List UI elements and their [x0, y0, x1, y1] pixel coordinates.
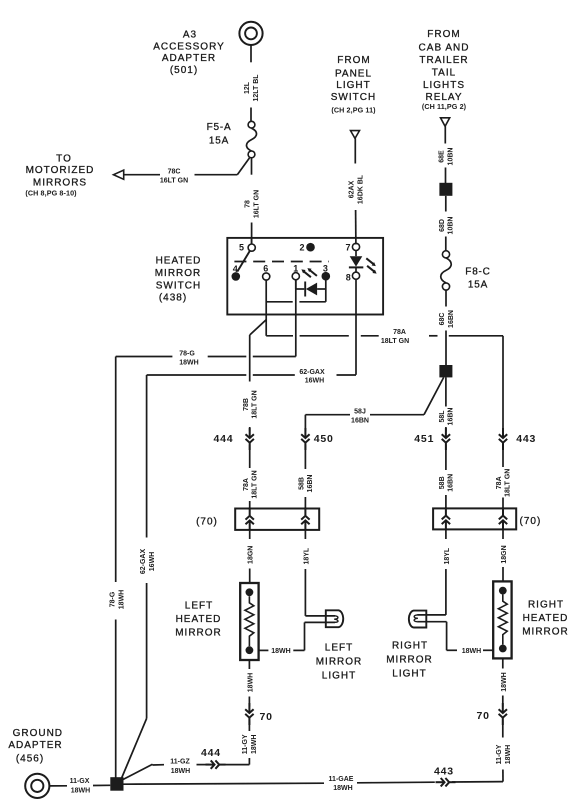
svg-text:LIGHT: LIGHT	[336, 80, 370, 91]
connector 450	[301, 428, 309, 450]
pin 8	[352, 272, 359, 279]
connector (70) left box chevrons pin B	[301, 508, 309, 530]
svg-text:F5-A: F5-A	[207, 122, 232, 133]
label 11-GAE 18WH	[329, 776, 354, 792]
label 18YL right	[444, 547, 451, 564]
svg-text:ACCESSORY: ACCESSORY	[153, 41, 225, 52]
svg-text:MIRROR: MIRROR	[386, 655, 433, 666]
wire 11-GZ 18WH	[123, 764, 210, 780]
label F8-C 15A	[465, 267, 490, 291]
svg-text:18WH: 18WH	[71, 787, 90, 794]
svg-text:450: 450	[314, 433, 334, 445]
svg-text:SWITCH: SWITCH	[156, 281, 201, 292]
connector 443	[499, 428, 507, 450]
svg-text:GROUND: GROUND	[13, 728, 63, 739]
svg-text:78-G18WH: 78-G18WH	[110, 590, 126, 609]
svg-text:443: 443	[434, 766, 454, 778]
svg-text:(CH 11,PG 2): (CH 11,PG 2)	[422, 102, 467, 111]
svg-text:16LT GN: 16LT GN	[160, 177, 188, 184]
wire 58B 16BN below connector 451	[445, 445, 447, 509]
svg-text:8: 8	[346, 272, 351, 282]
svg-text:A3: A3	[183, 30, 197, 41]
label 78C 16LT GN	[160, 169, 188, 185]
wire 18WH below right mirror	[502, 658, 504, 706]
svg-text:18GN: 18GN	[248, 546, 255, 564]
svg-text:ADAPTER: ADAPTER	[162, 53, 216, 64]
svg-text:6: 6	[263, 264, 268, 274]
svg-text:(501): (501)	[170, 65, 198, 76]
svg-text:(438): (438)	[159, 293, 187, 304]
LED light rays at pin 1	[301, 268, 317, 277]
svg-text:68E10BN: 68E10BN	[439, 148, 455, 166]
label 68C 16BN	[439, 310, 455, 328]
svg-text:58B16BN: 58B16BN	[299, 475, 315, 493]
connector ground adapter symbol	[25, 774, 49, 798]
arrow from cab and trailer tail lights relay	[441, 118, 450, 127]
connector (70) right box chevrons pin B	[499, 508, 507, 530]
svg-text:(CH 2,PG 11): (CH 2,PG 11)	[331, 106, 376, 115]
label ground adapter (456)	[8, 728, 63, 765]
svg-text:58L16BN: 58L16BN	[439, 408, 455, 426]
svg-text:18WH: 18WH	[462, 648, 481, 655]
wire pin 1 down	[295, 280, 297, 356]
svg-text:SWITCH: SWITCH	[331, 92, 376, 103]
svg-text:78A18LT GN: 78A18LT GN	[496, 469, 512, 497]
wire 78-G 18WH horizontal	[116, 356, 296, 358]
connector (70) right box chevrons pin A	[442, 508, 450, 530]
label 78A 18LT GN left	[243, 470, 259, 498]
connector A3 accessory adapter (501) symbol	[239, 22, 262, 45]
svg-text:CAB AND: CAB AND	[419, 43, 470, 54]
svg-text:PANEL: PANEL	[335, 68, 372, 79]
svg-text:11-GZ: 11-GZ	[170, 759, 190, 766]
right mirror light bulb	[409, 611, 426, 628]
wire 58B 16BN below connector 450	[304, 445, 306, 509]
svg-text:TAIL: TAIL	[432, 68, 456, 79]
dashed linkage line	[234, 261, 329, 263]
wire 18YL to right mirror light	[445, 529, 447, 615]
label 58L 16BN	[439, 408, 455, 426]
label right mirror light	[386, 641, 433, 680]
label 78A 18LT GN	[381, 329, 409, 345]
label 18GN right	[501, 545, 508, 563]
heated mirror switch box	[227, 238, 383, 315]
label 62AX 16DK BL	[349, 174, 365, 204]
connector 451	[442, 428, 450, 450]
label 11-GZ 18WH	[170, 759, 190, 775]
ground splice (black square)	[110, 777, 123, 791]
label F5-A 15A	[207, 122, 232, 147]
wire 62AX 16DK BL	[354, 138, 357, 244]
svg-text:5: 5	[239, 243, 244, 253]
svg-text:FROM: FROM	[337, 55, 370, 66]
connector (70) left box	[235, 509, 319, 530]
svg-text:11-GX: 11-GX	[70, 778, 90, 785]
label 58B 16BN left	[299, 475, 315, 493]
svg-text:7816LT GN: 7816LT GN	[245, 190, 261, 218]
LED indicator between pins 7 and 8	[349, 251, 363, 273]
label 68E 10BN	[439, 148, 455, 166]
svg-text:HEATED: HEATED	[176, 614, 222, 625]
svg-text:58J: 58J	[354, 409, 366, 416]
label 78-G 18WH	[179, 351, 199, 367]
svg-text:HEATED: HEATED	[156, 255, 202, 266]
wire pin 8 down	[355, 279, 357, 375]
svg-text:78A18LT GN: 78A18LT GN	[243, 470, 259, 498]
wire 78 16LT GN	[251, 223, 253, 245]
label 58B 16BN right	[439, 474, 455, 492]
wire 68D 10BN	[445, 196, 447, 251]
wire 18GN to left heated mirror	[249, 530, 251, 583]
fuse F5-A 15A	[246, 121, 256, 158]
label A3 accessory adapter	[153, 30, 225, 77]
left heated mirror element	[240, 583, 258, 660]
svg-text:18GN: 18GN	[501, 545, 508, 563]
svg-text:7: 7	[346, 243, 351, 253]
left mirror light bulb	[326, 610, 343, 627]
svg-text:62AX16DK BL: 62AX16DK BL	[349, 174, 365, 204]
svg-text:MIRRORS: MIRRORS	[33, 178, 87, 189]
svg-text:TRAILER: TRAILER	[419, 55, 468, 66]
wire 78B 18LT GN	[250, 320, 267, 432]
svg-text:444: 444	[214, 433, 234, 445]
label 18YL left	[303, 547, 310, 564]
label 18WH left vertical	[247, 673, 254, 692]
splice connector (black square) on 68 circuit	[439, 183, 452, 196]
wire 11-GX 18WH	[50, 784, 111, 787]
wire 78C 16LT GN to motorized mirrors	[123, 158, 252, 175]
svg-text:MOTORIZED: MOTORIZED	[26, 165, 95, 176]
svg-text:78B18LT GN: 78B18LT GN	[243, 390, 259, 418]
connector 444 bottom (11-GZ)	[206, 760, 226, 768]
label 18WH right link	[462, 648, 481, 655]
right heated mirror element	[493, 581, 511, 658]
wire 78A 18LT GN below connector 443	[502, 445, 504, 509]
svg-text:444: 444	[201, 747, 221, 759]
svg-text:18YL: 18YL	[303, 547, 310, 564]
svg-text:LIGHT: LIGHT	[392, 669, 426, 680]
svg-text:11-GY18WH: 11-GY18WH	[496, 744, 512, 764]
wire lamp bottom lead to 18WH	[258, 622, 335, 650]
label 12L 12LT BL	[244, 74, 260, 102]
pin 5	[251, 238, 253, 245]
label from panel light switch	[331, 55, 376, 115]
label 18WH left link	[271, 648, 290, 655]
label 62-GAX 16WH vertical	[140, 549, 156, 575]
wire 11-GAE 18WH bus	[124, 782, 504, 785]
label from cab and trailer tail lights relay	[419, 29, 470, 111]
wire 18YL right lamp top lead	[417, 614, 446, 616]
svg-text:15A: 15A	[468, 280, 488, 291]
svg-text:RIGHT: RIGHT	[392, 641, 428, 652]
svg-text:62-GAX16WH: 62-GAX16WH	[140, 549, 156, 575]
svg-text:RIGHT: RIGHT	[528, 599, 564, 610]
wire 68C 16BN	[445, 290, 447, 365]
svg-text:1: 1	[293, 264, 298, 274]
svg-text:2: 2	[300, 243, 305, 253]
label heated mirror switch (438)	[155, 255, 202, 303]
wire 12L 12LT BL	[250, 45, 252, 62]
svg-text:451: 451	[414, 433, 434, 445]
svg-text:58B16BN: 58B16BN	[439, 474, 455, 492]
diode LED between pins 1 and 3	[296, 280, 326, 302]
wire 58L 16BN	[445, 377, 447, 431]
svg-text:11-GAE: 11-GAE	[329, 776, 354, 783]
svg-text:MIRROR: MIRROR	[175, 628, 222, 639]
svg-text:ADAPTER: ADAPTER	[8, 740, 62, 751]
svg-text:12L12LT BL: 12L12LT BL	[244, 74, 260, 102]
connector 70 left	[245, 703, 253, 725]
label to motorized mirrors	[25, 153, 94, 197]
splice connector (black square) 58 circuit	[439, 365, 452, 377]
svg-text:(456): (456)	[16, 754, 44, 765]
connector 70 right	[499, 703, 507, 725]
label 11-GY 18WH right	[496, 744, 512, 764]
svg-text:70: 70	[260, 711, 273, 723]
svg-text:18WH: 18WH	[333, 785, 352, 792]
svg-text:18LT GN: 18LT GN	[381, 338, 409, 345]
svg-text:F8-C: F8-C	[465, 267, 490, 278]
svg-text:78-G: 78-G	[179, 351, 195, 358]
wire 62-GAX 16WH horizontal	[147, 374, 356, 376]
wire 18YL to left mirror light	[304, 530, 306, 616]
svg-text:78A: 78A	[393, 329, 406, 336]
wire 62-GAX vertical to ground	[121, 375, 147, 780]
arrow from panel light switch	[351, 131, 360, 139]
label 62-GAX 16WH	[299, 369, 325, 385]
svg-text:15A: 15A	[209, 136, 229, 147]
fuse F8-C 15A	[441, 251, 452, 290]
wire 58J 16BN	[305, 377, 443, 431]
svg-text:MIRROR: MIRROR	[316, 656, 363, 667]
svg-text:(CH 8,PG 8-10): (CH 8,PG 8-10)	[25, 188, 77, 197]
switch blade 5-4	[237, 251, 250, 272]
svg-text:18WH: 18WH	[271, 648, 290, 655]
svg-text:LIGHT: LIGHT	[322, 670, 356, 681]
svg-text:MIRROR: MIRROR	[155, 268, 202, 279]
svg-text:11-GY18WH: 11-GY18WH	[242, 734, 258, 754]
label 58J 16BN	[351, 409, 369, 425]
svg-text:MIRROR: MIRROR	[522, 626, 569, 637]
wire 18WH below left mirror	[248, 660, 250, 707]
pin 2	[306, 243, 315, 252]
label 78A 18LT GN right	[496, 469, 512, 497]
svg-text:18WH: 18WH	[171, 768, 190, 775]
pin 6	[263, 273, 270, 280]
svg-text:18YL: 18YL	[444, 547, 451, 564]
arrow to motorized mirrors	[114, 170, 124, 179]
svg-text:78C: 78C	[168, 169, 181, 176]
svg-text:16BN: 16BN	[351, 418, 369, 425]
connector 443 bottom	[436, 778, 456, 786]
label 18GN left	[248, 546, 255, 564]
pin 3	[322, 272, 331, 281]
label 18WH right vertical	[501, 672, 508, 691]
svg-text:68D10BN: 68D10BN	[439, 217, 455, 235]
svg-text:(70): (70)	[196, 517, 218, 528]
pin 1	[292, 273, 299, 280]
svg-text:LEFT: LEFT	[185, 601, 213, 612]
connector 444	[246, 428, 254, 450]
label 78 16LT GN	[245, 190, 261, 218]
connector (70) right box	[433, 508, 516, 529]
svg-text:TO: TO	[56, 153, 72, 164]
label 68D 10BN	[439, 217, 455, 235]
svg-text:18WH: 18WH	[247, 673, 254, 692]
pin 7	[352, 243, 359, 250]
label left heated mirror	[175, 601, 222, 639]
svg-text:16WH: 16WH	[305, 378, 324, 385]
LED light rays at pin 7	[366, 258, 376, 273]
svg-text:HEATED: HEATED	[523, 613, 569, 624]
wire 68E 10BN	[444, 126, 446, 183]
wire pin6 internal junction to pin3 leg	[266, 301, 326, 303]
svg-text:LIGHTS: LIGHTS	[423, 80, 465, 91]
svg-text:62-GAX: 62-GAX	[299, 369, 325, 376]
label 11-GX 18WH	[70, 778, 91, 794]
svg-text:70: 70	[477, 710, 490, 722]
label left mirror light	[316, 642, 363, 681]
svg-text:LEFT: LEFT	[325, 642, 353, 653]
wire 78A 18LT GN horizontal	[266, 335, 503, 337]
svg-text:FROM: FROM	[427, 29, 460, 40]
svg-text:3: 3	[323, 264, 328, 274]
wire 443 branch vertical	[502, 336, 504, 432]
label 78-G 18WH vertical	[110, 590, 126, 609]
svg-text:18WH: 18WH	[179, 360, 198, 367]
svg-text:68C16BN: 68C16BN	[439, 310, 455, 328]
label right heated mirror	[522, 599, 569, 637]
pin 4	[232, 272, 241, 281]
wire 11-GY 18WH left	[225, 720, 249, 764]
label 78B 18LT GN	[243, 390, 259, 418]
wire 78-G vertical to ground	[115, 357, 117, 779]
svg-text:4: 4	[233, 264, 238, 274]
wire 18GN to right heated mirror	[502, 529, 504, 581]
wire right lamp bottom lead to 18WH	[417, 622, 493, 651]
svg-text:443: 443	[516, 433, 536, 445]
svg-text:(70): (70)	[520, 516, 542, 527]
svg-text:18WH: 18WH	[501, 672, 508, 691]
wire 11-GY 18WH right	[502, 720, 504, 781]
connector (70) left box chevrons pin A	[246, 508, 254, 530]
wire 78A 18LT GN below connector 444	[249, 445, 251, 509]
wire 18YL lamp top lead	[305, 615, 335, 617]
wire pin 6 down	[265, 280, 267, 336]
label 11-GY 18WH left	[242, 734, 258, 754]
